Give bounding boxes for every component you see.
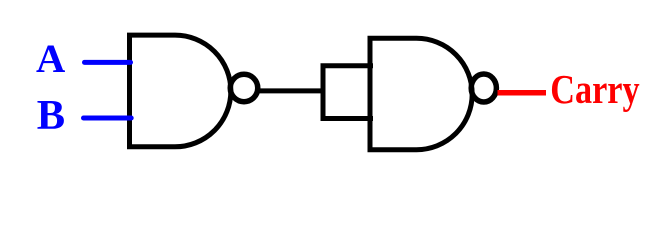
svg-text:A: A [36,36,65,81]
svg-text:B: B [37,92,65,139]
svg-text:Carry: Carry [550,66,640,112]
